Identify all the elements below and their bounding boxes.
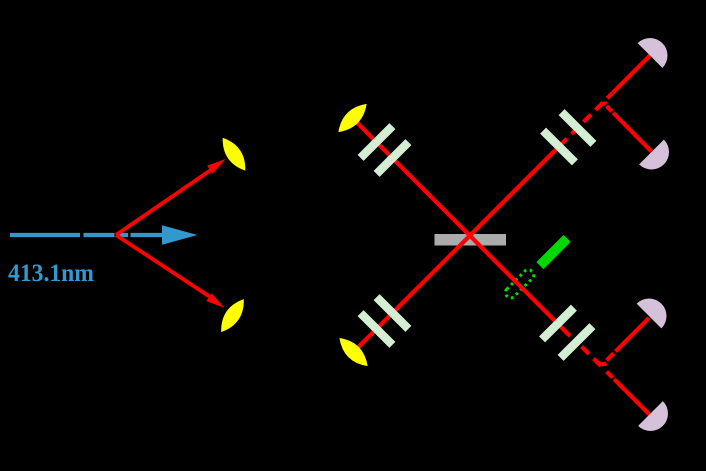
waveplate P4 [374, 294, 412, 332]
crystal (solid green) [536, 235, 570, 269]
lens L1 [217, 134, 252, 175]
beam A dashed into lower PBS corner [577, 342, 601, 366]
detector D4 [638, 401, 675, 438]
waveplate P6 [559, 109, 597, 147]
red beams [353, 56, 652, 416]
beam A solid: lens L2 to beyond plates (down-right) [353, 118, 571, 336]
waveplate P1 [358, 123, 396, 161]
waveplate P7 [539, 305, 577, 343]
bend arm at upper PBS corner [598, 103, 607, 108]
wire pump segment 4 [131, 233, 164, 237]
lens L3 [215, 295, 250, 336]
beam A transmitted dash+solid to detector D4 [601, 366, 650, 415]
waveplate P2 [374, 139, 412, 177]
detector D3 [637, 291, 674, 328]
pump beam (blue dashed line) [10, 233, 163, 237]
crystal ghost position (dotted green outline) [503, 268, 535, 300]
detector D1 [638, 31, 675, 68]
beam B transmitted dash+solid to detector D1 [603, 56, 650, 103]
beam B dashed into upper PBS corner [556, 103, 603, 150]
wire pump segment 1 [10, 233, 80, 237]
waveplate P3 [358, 310, 396, 348]
beam B reflected dash+solid to detector D2 [603, 103, 652, 152]
pump arrowhead [162, 225, 198, 245]
beam splitter BS (gray plate) [435, 234, 507, 246]
waveplate P8 [558, 323, 596, 361]
beam A reflected dash+solid to detector D3 [601, 318, 649, 366]
lens L4 [334, 333, 373, 372]
idler beam arrow to lens L3 [116, 235, 211, 298]
lens L2 [333, 99, 372, 138]
bend arm at lower PBS corner [596, 361, 607, 365]
beam B solid: lens L4 up-right to beyond BS [354, 150, 557, 353]
wire pump segment 2 [84, 233, 115, 237]
svg-text:413.1nm: 413.1nm [8, 258, 94, 287]
wire pump segment 3 [118, 233, 128, 237]
signal beam arrow to lens L1 [116, 169, 213, 236]
detector D2 [639, 140, 676, 177]
waveplate P5 [540, 128, 578, 166]
